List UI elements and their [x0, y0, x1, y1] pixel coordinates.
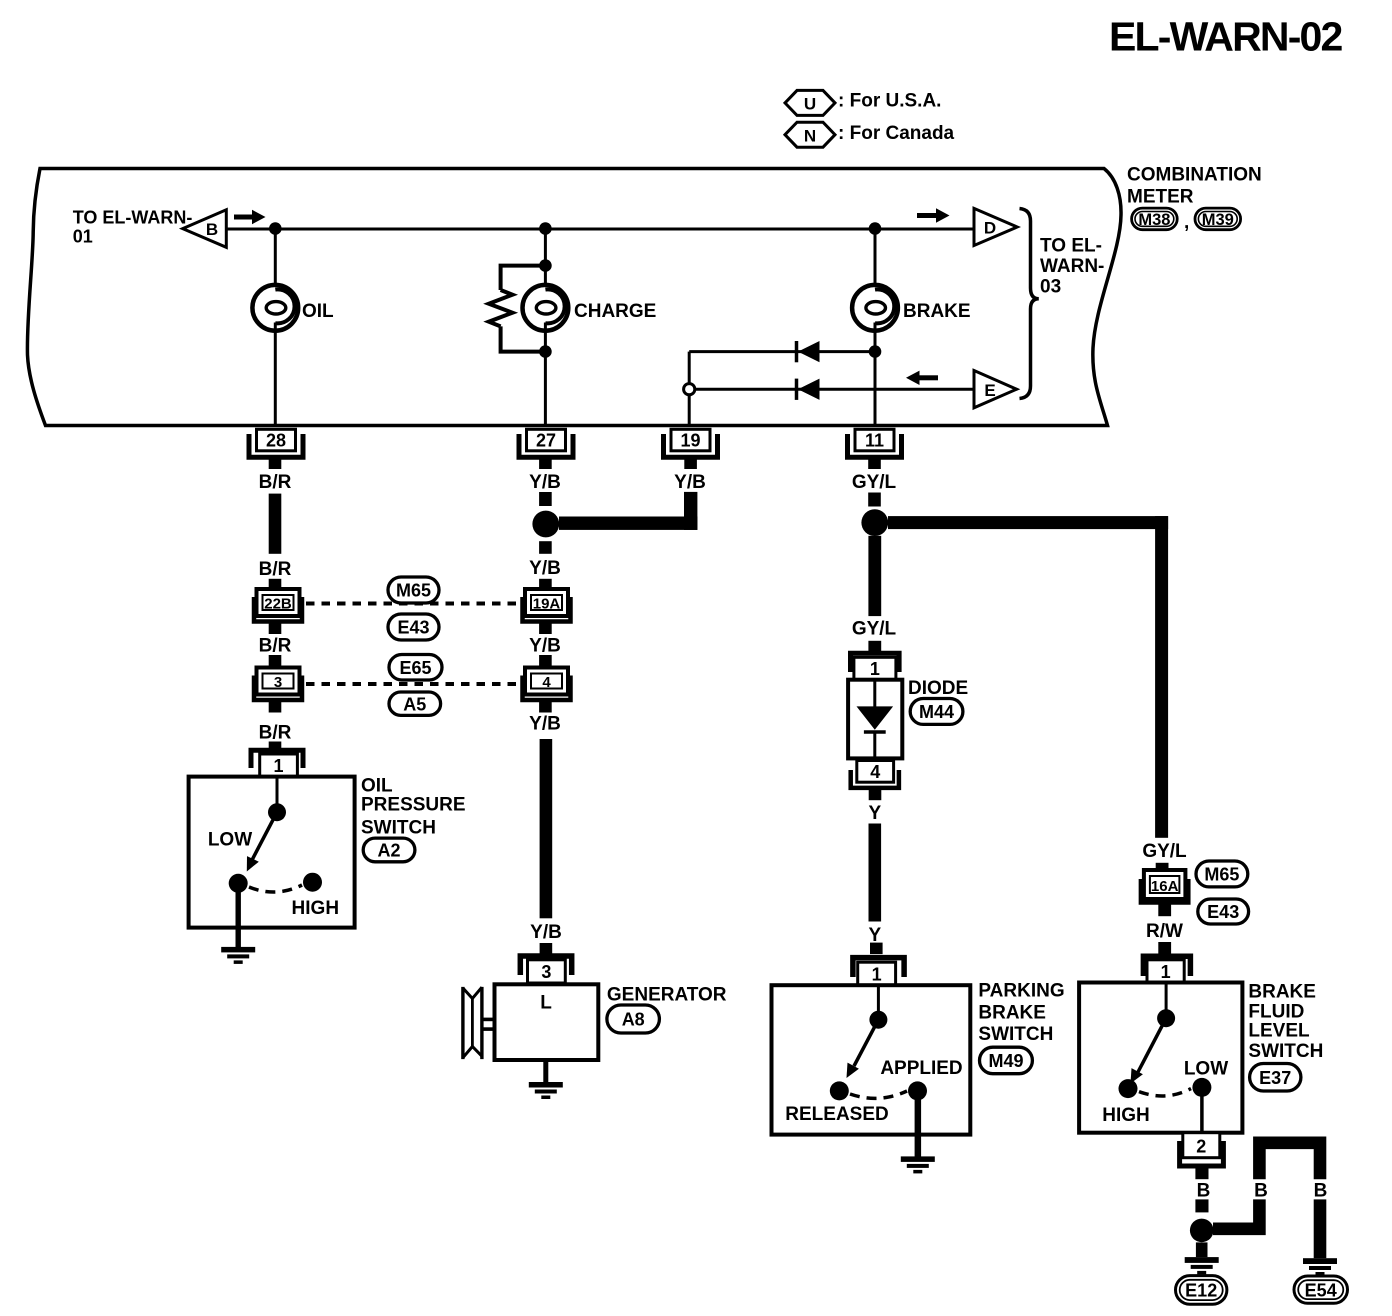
- svg-text:,: ,: [1184, 212, 1189, 233]
- svg-text:PARKING: PARKING: [978, 981, 1064, 1002]
- wire stub below 27: [539, 457, 552, 469]
- node contact RELEASED: [830, 1081, 849, 1100]
- wire stub below diode: [869, 788, 882, 800]
- svg-text:1: 1: [870, 659, 880, 679]
- svg-text:GENERATOR: GENERATOR: [607, 984, 727, 1005]
- node switch pivot (parking): [869, 1011, 887, 1029]
- svg-text:B: B: [206, 220, 218, 239]
- dashed tie 22B-19A: [306, 602, 521, 606]
- node switch pivot (bfl): [1157, 1009, 1175, 1027]
- wire junction to middle riser: [1213, 1199, 1259, 1235]
- diode upper (in meter): [797, 341, 820, 362]
- svg-text:M38: M38: [1138, 211, 1170, 229]
- svg-text:CHARGE: CHARGE: [574, 301, 656, 322]
- combination meter box outline (torn edges): [27, 169, 1121, 426]
- svg-text:3: 3: [274, 674, 282, 691]
- diode symbol: [857, 680, 894, 759]
- wire stub below E12 junction: [1196, 1242, 1208, 1257]
- svg-text:B/R: B/R: [259, 559, 292, 580]
- wire to ground (oil switch): [236, 892, 241, 947]
- connector A5 oval: [389, 692, 441, 715]
- connector 4: [523, 668, 571, 701]
- connector pin 19: [664, 429, 718, 457]
- node contact LOW side: [229, 874, 248, 893]
- svg-text:2: 2: [1196, 1137, 1206, 1157]
- connector M65 oval: [388, 577, 439, 603]
- svg-text:WARN-: WARN-: [1040, 256, 1104, 277]
- svg-text:TO EL-: TO EL-: [1040, 235, 1102, 256]
- connector 1 (parking brake switch): [853, 958, 904, 986]
- svg-text:M65: M65: [396, 581, 431, 601]
- wire LOW contact to pin 2: [1200, 1096, 1204, 1133]
- svg-text:Y/B: Y/B: [529, 636, 561, 657]
- svg-text:FLUID: FLUID: [1248, 1002, 1304, 1023]
- node thick junction (E12 tie): [1190, 1219, 1214, 1243]
- connector pin 27: [519, 429, 573, 457]
- wire stub below 11: [868, 457, 881, 469]
- svg-text:E12: E12: [1185, 1280, 1217, 1300]
- dashed throw arc (bfl): [1139, 1089, 1191, 1096]
- svg-text:Y/B: Y/B: [529, 472, 561, 493]
- svg-text:OIL: OIL: [361, 775, 393, 796]
- triangle D (to EL-WARN-03): [974, 208, 1017, 245]
- svg-text:B: B: [1314, 1181, 1328, 1202]
- svg-text:A2: A2: [377, 841, 400, 861]
- svg-text:E54: E54: [1305, 1280, 1337, 1300]
- wire stub above 22B: [269, 579, 282, 591]
- svg-text:GY/L: GY/L: [852, 472, 897, 493]
- node switch pivot: [268, 803, 286, 821]
- triangle E (to EL-WARN-03): [974, 371, 1017, 408]
- lamp BRAKE: [852, 285, 898, 331]
- wire stub below 27 second: [539, 492, 552, 506]
- svg-text:B: B: [1254, 1181, 1268, 1202]
- wire Y thick segment: [869, 824, 882, 922]
- svg-text:M49: M49: [988, 1051, 1023, 1071]
- node thick junction (27/19 tie): [532, 511, 559, 538]
- svg-text:E: E: [984, 381, 995, 400]
- node junction at CHARGE column: [539, 222, 552, 235]
- ground (oil switch): [221, 947, 255, 964]
- wire thick L from pin 19: [684, 492, 697, 530]
- wire below junction (GY/L): [868, 536, 881, 616]
- connector 1 (oil pressure switch): [251, 750, 303, 776]
- connector 1 (brake fluid level switch): [1143, 956, 1190, 982]
- svg-text:LEVEL: LEVEL: [1248, 1021, 1310, 1042]
- svg-text:Y/B: Y/B: [529, 558, 561, 579]
- wire stub below 19A: [539, 622, 552, 635]
- diode lower (in meter): [797, 379, 820, 400]
- brake fluid level switch E37 box: [1079, 983, 1242, 1133]
- svg-text:L: L: [540, 993, 552, 1014]
- svg-text:Y/B: Y/B: [530, 922, 562, 943]
- svg-text:B/R: B/R: [259, 723, 292, 744]
- connector E37 oval: [1250, 1064, 1301, 1092]
- svg-text:: For Canada: : For Canada: [838, 123, 955, 144]
- diode M44 box: [848, 680, 902, 759]
- svg-text:4: 4: [870, 762, 880, 782]
- svg-text:HIGH: HIGH: [1102, 1105, 1150, 1126]
- wire stub below 11 second: [868, 493, 881, 507]
- svg-text:APPLIED: APPLIED: [880, 1058, 962, 1079]
- svg-text:B/R: B/R: [259, 472, 292, 493]
- legend U hexagon: For U.S.A.: [785, 90, 941, 115]
- connector E43 oval (right): [1198, 899, 1249, 924]
- wire right leg to E54: [1314, 1199, 1327, 1258]
- node contact HIGH side: [303, 873, 322, 892]
- svg-text:1: 1: [872, 964, 882, 984]
- svg-text:SWITCH: SWITCH: [978, 1024, 1053, 1045]
- arrow right near B: [234, 210, 266, 224]
- switch arm with arrow (oil pressure): [247, 812, 277, 871]
- svg-text:HIGH: HIGH: [292, 898, 340, 919]
- wire stub below 22B: [269, 622, 282, 635]
- svg-text:U: U: [804, 95, 816, 114]
- svg-text:GY/L: GY/L: [1142, 841, 1187, 862]
- svg-text:A5: A5: [403, 695, 426, 715]
- wire stub above 1: [269, 742, 282, 755]
- svg-text:19: 19: [680, 431, 700, 451]
- node thick junction (11/GY/L tie): [861, 509, 888, 536]
- connector E65 oval: [389, 655, 442, 681]
- wire CHARGE lamp to pin 27: [544, 323, 547, 427]
- wire bridge over (B loop): [1259, 1143, 1320, 1179]
- wire upper diode run y=351.6: [689, 350, 875, 353]
- connector A2 oval: [363, 838, 415, 862]
- wire stub below junction: [539, 541, 552, 554]
- svg-text:11: 11: [865, 431, 884, 451]
- wire BRAKE drop: [874, 229, 877, 291]
- svg-text:Y/B: Y/B: [674, 472, 706, 493]
- parking brake switch M49 box: [772, 985, 971, 1134]
- node junction at BRAKE column: [869, 222, 882, 235]
- wire stub above 16A: [1156, 863, 1169, 872]
- svg-text:COMBINATION: COMBINATION: [1127, 165, 1262, 186]
- wire lower diode run y=389.2 to triangle E: [695, 388, 974, 391]
- node contact APPLIED: [908, 1081, 927, 1100]
- connector M39 oval: [1195, 208, 1241, 230]
- switch arm with arrow (bfl): [1131, 1018, 1167, 1083]
- svg-text:19A: 19A: [533, 596, 561, 613]
- wire Y/B long thick segment: [540, 739, 553, 918]
- svg-text:Y/B: Y/B: [529, 714, 561, 735]
- brace to EL-WARN-03: [1020, 209, 1039, 399]
- svg-text:EL-WARN-02: EL-WARN-02: [1109, 14, 1343, 60]
- wire stub below 16A: [1158, 903, 1171, 917]
- generator A8 box: [495, 984, 599, 1060]
- svg-text:SWITCH: SWITCH: [1248, 1041, 1323, 1062]
- svg-text:DIODE: DIODE: [908, 678, 968, 699]
- connector E54 oval: [1294, 1276, 1348, 1303]
- legend N hexagon: For Canada: [785, 122, 955, 147]
- wire stub below 3: [269, 700, 282, 713]
- wire stub above 4: [539, 655, 552, 668]
- wire to ground (generator): [543, 1060, 548, 1084]
- wire stub below 19: [684, 457, 697, 469]
- node contact HIGH (bfl): [1119, 1079, 1138, 1098]
- svg-text:22B: 22B: [264, 596, 292, 613]
- svg-text:1: 1: [1161, 962, 1171, 982]
- wire stub above generator 3: [540, 943, 553, 955]
- node junction at OIL column: [269, 222, 282, 235]
- wire thick L to right riser: [888, 516, 1168, 529]
- svg-text:M39: M39: [1202, 211, 1234, 229]
- svg-text:28: 28: [266, 431, 286, 451]
- wire CHARGE drop: [544, 229, 547, 291]
- svg-text:TO EL-WARN-: TO EL-WARN-: [73, 208, 193, 228]
- svg-text:Y: Y: [868, 803, 881, 824]
- svg-text:RELEASED: RELEASED: [785, 1104, 888, 1125]
- svg-text:E37: E37: [1259, 1068, 1291, 1088]
- dashed tie 3-4: [306, 682, 521, 686]
- dashed throw arc (parking): [850, 1091, 907, 1098]
- wire open circle up to upper diode wire: [688, 352, 691, 384]
- connector pin 28: [249, 429, 303, 457]
- ground E12: [1185, 1257, 1219, 1274]
- wire stub above bfl 1: [1158, 942, 1171, 954]
- svg-text:B/R: B/R: [259, 636, 292, 657]
- switch arm with arrow (parking): [847, 1020, 879, 1078]
- connector 2 (bfl bottom): [1180, 1133, 1224, 1166]
- dashed throw arc: [249, 885, 302, 892]
- ground (parking): [901, 1156, 935, 1173]
- connector E12 oval: [1176, 1276, 1227, 1305]
- svg-text:1: 1: [273, 756, 283, 776]
- svg-text:3: 3: [541, 962, 551, 982]
- wire pin 1 to contact (bfl): [1165, 983, 1168, 1019]
- svg-text:03: 03: [1040, 276, 1061, 297]
- svg-text:M44: M44: [919, 702, 954, 722]
- wire stub above parking 1: [870, 943, 883, 955]
- svg-text:N: N: [804, 126, 816, 145]
- wire B/R thick segment: [269, 494, 282, 554]
- connector 19A: [523, 589, 571, 622]
- connector 1 (diode top): [851, 653, 900, 679]
- wire stub above diode 1: [868, 641, 881, 653]
- connector 16A: [1141, 870, 1188, 903]
- wire OIL drop: [274, 229, 277, 291]
- svg-text:LOW: LOW: [1184, 1059, 1228, 1080]
- svg-text:PRESSURE: PRESSURE: [361, 795, 466, 816]
- svg-text:BRAKE: BRAKE: [1248, 982, 1316, 1003]
- wire BRAKE lamp to pin 11: [874, 323, 877, 427]
- triangle B (to EL-WARN-01): [183, 210, 227, 248]
- connector M44 oval: [910, 699, 963, 725]
- node junction resistor top: [539, 259, 552, 272]
- svg-text:SWITCH: SWITCH: [361, 817, 436, 838]
- wire stub below 4: [539, 700, 552, 713]
- svg-text:01: 01: [73, 227, 93, 247]
- svg-text:A8: A8: [622, 1010, 645, 1030]
- arrow right near D: [917, 208, 950, 222]
- svg-text:BRAKE: BRAKE: [903, 301, 971, 322]
- wire open circle down to pin 19: [688, 395, 691, 426]
- wire stub below 2: [1195, 1166, 1208, 1179]
- connector 4 (diode bottom): [851, 761, 899, 788]
- node contact LOW (bfl): [1192, 1078, 1211, 1097]
- svg-text:E43: E43: [397, 618, 429, 638]
- svg-text:METER: METER: [1127, 187, 1194, 208]
- svg-text:GY/L: GY/L: [852, 619, 897, 640]
- connector E43 oval: [388, 614, 439, 640]
- generator pulley: [463, 987, 496, 1059]
- lamp OIL: [252, 285, 298, 331]
- lamp CHARGE: [523, 285, 569, 331]
- connector 3 (generator): [520, 956, 571, 983]
- svg-text:LOW: LOW: [208, 830, 252, 851]
- oil pressure switch A2 box: [189, 777, 355, 928]
- svg-text:E43: E43: [1207, 902, 1239, 922]
- svg-text:R/W: R/W: [1146, 921, 1183, 942]
- connector M38 oval: [1132, 208, 1178, 230]
- connector M65 oval (right): [1196, 861, 1248, 887]
- connector 22B: [254, 589, 302, 622]
- wire to ground (parking): [915, 1097, 922, 1157]
- wire stub below 28: [269, 457, 282, 469]
- wire stub above 3: [269, 655, 282, 668]
- svg-text:: For U.S.A.: : For U.S.A.: [838, 91, 941, 112]
- resistor (parallel with CHARGE lamp): [489, 266, 546, 352]
- connector A8 oval: [607, 1005, 660, 1033]
- wire stub above 19A: [539, 579, 552, 591]
- svg-text:4: 4: [542, 674, 551, 691]
- arrow left near E: [906, 371, 938, 385]
- node junction CHARGE bottom: [539, 345, 552, 358]
- svg-text:16A: 16A: [1151, 878, 1179, 895]
- connector pin 11: [848, 429, 902, 457]
- connector 3: [254, 668, 302, 701]
- svg-text:OIL: OIL: [302, 301, 334, 322]
- wire stub above E12 junction: [1195, 1199, 1208, 1212]
- wire OIL lamp to pin 28: [274, 323, 277, 427]
- svg-text:B: B: [1197, 1181, 1211, 1202]
- connector M49 oval: [980, 1047, 1033, 1074]
- ground E54: [1303, 1258, 1337, 1275]
- svg-text:E65: E65: [399, 658, 431, 678]
- node open circle junction (pin 19 riser): [684, 384, 695, 395]
- wire pin 1 to contact: [877, 985, 880, 1020]
- ground (generator): [529, 1082, 563, 1099]
- wire main bus y=229: [226, 228, 974, 231]
- node junction BRAKE bottom: [869, 345, 882, 358]
- svg-text:D: D: [984, 219, 996, 238]
- svg-text:27: 27: [536, 431, 556, 451]
- wire pin 1 to switch contact: [276, 777, 279, 812]
- svg-text:BRAKE: BRAKE: [978, 1002, 1046, 1023]
- svg-text:M65: M65: [1204, 865, 1239, 885]
